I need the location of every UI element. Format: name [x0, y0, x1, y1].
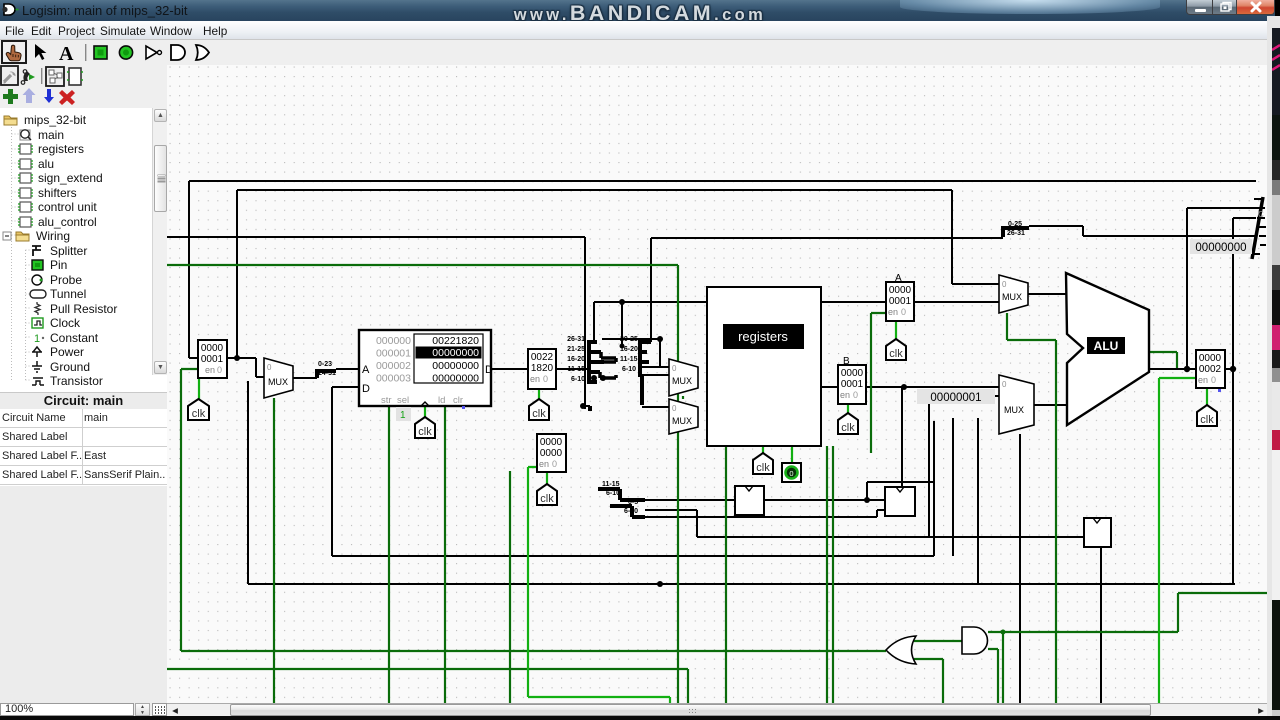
svg-text:0: 0	[543, 374, 548, 384]
svg-text:6-10: 6-10	[624, 508, 638, 515]
svg-text:clk: clk	[841, 422, 855, 434]
svg-text:clk: clk	[756, 462, 770, 474]
svg-text:A: A	[59, 43, 74, 65]
svg-text:clk: clk	[532, 408, 546, 420]
svg-text:6-10: 6-10	[571, 376, 585, 383]
svg-text:clr: clr	[453, 395, 463, 406]
svg-text:20-25: 20-25	[620, 336, 638, 343]
svg-text:clk: clk	[540, 493, 554, 505]
svg-text:MUX: MUX	[1002, 292, 1022, 302]
svg-text:6-10: 6-10	[622, 366, 636, 373]
svg-text:registers: registers	[738, 329, 788, 344]
svg-text:clk: clk	[192, 408, 206, 420]
svg-text:1: 1	[400, 410, 406, 421]
svg-text:MUX: MUX	[1004, 405, 1024, 415]
svg-text:clk: clk	[418, 426, 432, 438]
svg-text:000003: 000003	[376, 373, 411, 385]
svg-text:000002: 000002	[376, 360, 411, 372]
svg-text:en: en	[530, 374, 540, 384]
svg-text:ld: ld	[438, 395, 445, 406]
svg-text:0: 0	[672, 404, 677, 413]
svg-text:11-15: 11-15	[567, 366, 585, 373]
svg-text:0001: 0001	[841, 379, 864, 390]
svg-text:0: 0	[552, 459, 557, 469]
svg-text:0000: 0000	[540, 448, 563, 459]
svg-text:0000: 0000	[841, 368, 864, 379]
svg-text:0: 0	[901, 307, 906, 317]
svg-text:0: 0	[1002, 380, 1007, 389]
svg-text:00000000: 00000000	[1195, 242, 1246, 254]
svg-text:0001: 0001	[201, 354, 224, 365]
svg-text:ALU: ALU	[1094, 339, 1119, 353]
svg-text:0000: 0000	[889, 285, 912, 296]
svg-text:C: C	[1258, 210, 1264, 219]
svg-text:0: 0	[267, 363, 272, 372]
svg-text:0002: 0002	[1199, 364, 1222, 375]
svg-text:00221820: 00221820	[432, 335, 479, 347]
svg-text:000000: 000000	[376, 335, 411, 347]
svg-text:MUX: MUX	[672, 416, 692, 426]
svg-text:en: en	[840, 390, 850, 400]
svg-text:6-10: 6-10	[606, 490, 620, 497]
svg-text:1820: 1820	[531, 363, 554, 374]
svg-text:0: 0	[1211, 375, 1216, 385]
svg-text:0: 0	[1002, 280, 1007, 289]
svg-text:0-25: 0-25	[1008, 221, 1022, 228]
svg-text:en: en	[205, 365, 215, 375]
svg-text:0-5: 0-5	[628, 499, 638, 506]
svg-text:0: 0	[672, 364, 677, 373]
svg-text:0000: 0000	[1199, 353, 1222, 364]
svg-text:21-25: 21-25	[567, 346, 585, 353]
svg-text:A: A	[362, 364, 370, 376]
svg-text:clk: clk	[889, 348, 903, 360]
svg-text:en: en	[888, 307, 898, 317]
svg-text:00000000: 00000000	[432, 347, 479, 359]
svg-text:16-20: 16-20	[567, 356, 585, 363]
svg-text:sel: sel	[397, 395, 409, 406]
svg-text:D: D	[485, 364, 493, 376]
svg-text:0: 0	[789, 469, 793, 478]
svg-text:24-31: 24-31	[318, 370, 336, 377]
svg-text:clk: clk	[1200, 414, 1214, 426]
svg-text:00000000: 00000000	[432, 373, 479, 385]
svg-text:MUX: MUX	[268, 377, 288, 387]
svg-text:0000: 0000	[540, 437, 563, 448]
svg-text:en: en	[539, 459, 549, 469]
svg-text:str: str	[381, 395, 392, 406]
svg-text:0-23: 0-23	[318, 361, 332, 368]
svg-text:26-31: 26-31	[1007, 230, 1025, 237]
svg-text:00000000: 00000000	[432, 360, 479, 372]
svg-text:00000001: 00000001	[930, 392, 981, 404]
svg-text:0022: 0022	[531, 352, 554, 363]
svg-text:26-31: 26-31	[567, 336, 585, 343]
svg-text:en: en	[1198, 375, 1208, 385]
svg-text:MUX: MUX	[672, 376, 692, 386]
svg-text:0: 0	[217, 365, 222, 375]
svg-text:000001: 000001	[376, 348, 411, 360]
svg-text:11-15: 11-15	[620, 356, 638, 363]
svg-text:D: D	[362, 383, 370, 395]
svg-text:11-15: 11-15	[602, 481, 620, 488]
svg-text:16-20: 16-20	[620, 346, 638, 353]
svg-text:0001: 0001	[889, 296, 912, 307]
svg-text:0: 0	[853, 390, 858, 400]
svg-text:0000: 0000	[201, 343, 224, 354]
